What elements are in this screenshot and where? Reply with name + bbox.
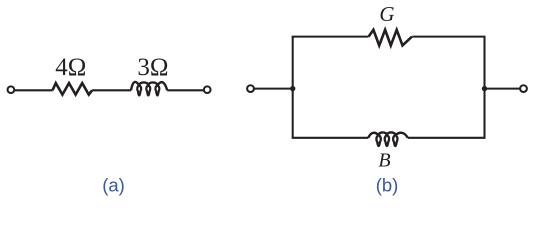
svg-text:B: B	[378, 149, 390, 171]
svg-text:4Ω: 4Ω	[55, 54, 86, 81]
svg-text:(a): (a)	[102, 175, 125, 196]
svg-text:G: G	[379, 2, 394, 26]
svg-text:3Ω: 3Ω	[137, 54, 168, 81]
svg-text:(b): (b)	[376, 175, 399, 196]
